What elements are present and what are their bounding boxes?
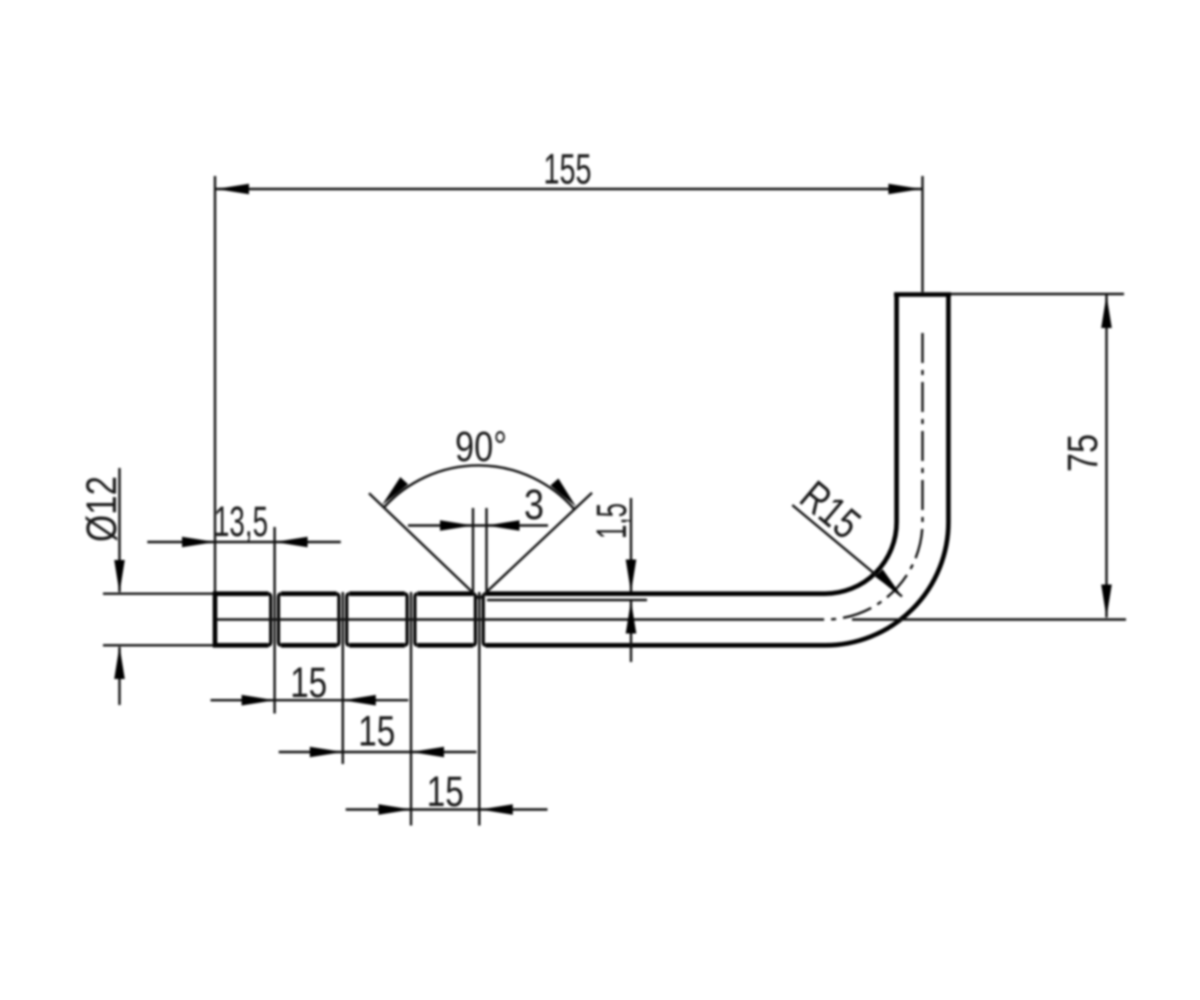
155 dimension line [215,188,923,190]
diameter 12 top extension line [103,593,213,595]
svg-text:15: 15 [290,659,327,707]
groove 3 right wall [415,594,417,646]
arrow 13,5 right (pointing left) [275,537,308,548]
rod bottom edge segment 1 [213,643,268,648]
groove root line (1,5 depth) [487,599,647,601]
90 degree dimension arc [384,465,574,508]
svg-text:90°: 90° [455,423,507,471]
left end cap of rod [213,592,218,648]
thin lines: centerlines and extension lines [103,176,1126,826]
rod top edge segment 2 [281,591,337,596]
arrow 155 left [216,184,249,195]
1,5 dimension line upper segment [630,498,632,592]
15 dimension line (first) [211,699,409,701]
arrow R15 leader [875,569,902,596]
arrow 75 top [1101,295,1112,328]
75 bottom extension line [852,618,1126,620]
90 degree flank line left [369,493,479,599]
arrow 3 left (pointing right) [440,520,473,531]
svg-text:13,5: 13,5 [214,498,268,546]
rod top edge segment 3 [349,591,405,596]
diameter 12 dimension line lower segment [118,647,120,705]
arrow 1,5 top (pointing down) [626,560,637,593]
rod bottom edge segment 2 [281,643,337,648]
arrow 155 right [888,184,921,195]
arrow 15-1 left (pointing right) [242,695,275,706]
13,5 dimension line [147,541,340,543]
groove 4 left wall [473,594,475,646]
arrow dia12 top (pointing down) [114,560,125,593]
rod top edge segment 4 [417,591,473,596]
diameter 12 dimension line upper segment [118,468,120,592]
arrow 15-3 right (pointing left) [480,804,513,815]
svg-text:155: 155 [544,146,592,194]
3 dimension line [408,524,548,526]
rod top edge segment 1 [213,591,268,596]
groove 2 right wall [347,594,349,646]
extension line groove 3 center [410,592,412,826]
part outline: bent rod body (thick lines) [213,295,951,648]
155 left extension line [214,176,216,592]
svg-text:1,5: 1,5 [588,503,636,539]
groove depth extension line: 3 dim right [485,508,487,592]
rod bottom edge segment 5 + outer bend arc + vertical arm right edge [486,295,949,646]
rod bottom edge segment 4 [417,643,473,648]
vertical arm top cap [894,292,951,297]
arrow 15-2 right (pointing left) [411,747,444,758]
rod top edge segment 5 + inner bend arc + vertical arm left edge [486,295,897,594]
grooves (thick walls with rounded corners) [268,594,485,646]
centerline dash-dot through bend and up vertical arm [795,333,923,620]
extension line groove 4 center [478,592,480,826]
15 dimension line (third) [346,808,548,810]
arrow 15-2 left (pointing right) [310,747,343,758]
arrow 90deg right end of arc [550,479,576,507]
15 dimension line (second) [279,751,477,753]
rod bottom edge segment 3 [349,643,405,648]
rod horizontal centerline (solid part inside rod) [216,618,795,620]
arrowheads [114,184,1112,815]
svg-text:15: 15 [358,708,395,756]
arrow 75 bottom [1101,585,1112,618]
svg-text:3: 3 [524,481,544,529]
groove 1 right wall [279,594,281,646]
arrow 1,5 bottom (pointing up) [626,601,637,634]
arrow 90deg left end of arc [382,477,408,505]
arrow dia12 bottom (pointing up) [114,646,125,679]
arrow 3 right (pointing left) [487,520,520,531]
groove 1 left wall [268,594,270,646]
extension line groove 2 center [342,592,344,764]
centerline solid upper part / 155 right extension line [921,176,923,292]
75 dimension line [1105,295,1107,618]
groove depth extension line: 3 dim left [472,508,474,592]
svg-text:Ø12: Ø12 [78,476,126,542]
groove 4 right wall [483,594,485,646]
svg-text:75: 75 [1059,434,1107,472]
dimension texts [78,146,1107,817]
groove 3 left wall [405,594,407,646]
svg-text:15: 15 [427,768,464,816]
R15 leader line [792,505,902,596]
75 top extension line [951,293,1124,295]
90 degree flank line right [479,493,592,599]
arrow 13,5 left (pointing right) [182,537,215,548]
arrow 15-3 left (pointing right) [379,804,412,815]
groove 2 left wall [337,594,339,646]
arrow 15-1 right (pointing left) [343,695,376,706]
diameter 12 bottom extension line [103,644,213,646]
1,5 dimension line lower segment [630,601,632,662]
extension line groove 1 center [273,527,275,714]
